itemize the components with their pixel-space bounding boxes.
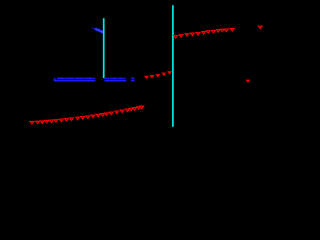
blue band upper dashed row, left segment xyxy=(57,77,95,79)
red triangle series B (middle run left of cyan line 2) xyxy=(144,71,171,79)
red triangle series C (top-right run right of cyan line 2) xyxy=(174,29,234,39)
blue band upper dashed row, right segment xyxy=(105,77,126,79)
red triangle series A (bottom-left ascending run) xyxy=(30,106,144,124)
blue band lower solid row, left segment xyxy=(54,80,95,82)
blue band left cap xyxy=(54,78,56,82)
isolated red triangle top-right xyxy=(259,26,263,29)
cyan vertical line 2 (right, full height) xyxy=(172,5,174,127)
cyan vertical line 1 (left, ends at blue band) xyxy=(103,18,105,78)
blue band lower solid row, right segment xyxy=(105,80,127,82)
blue band upper row isolated dash xyxy=(131,77,134,79)
isolated red triangle middle-right xyxy=(246,80,251,83)
blue particle clump upper (diagonal blob left of cyan line 1) xyxy=(92,27,105,34)
blue band lower row isolated dash xyxy=(131,80,135,82)
